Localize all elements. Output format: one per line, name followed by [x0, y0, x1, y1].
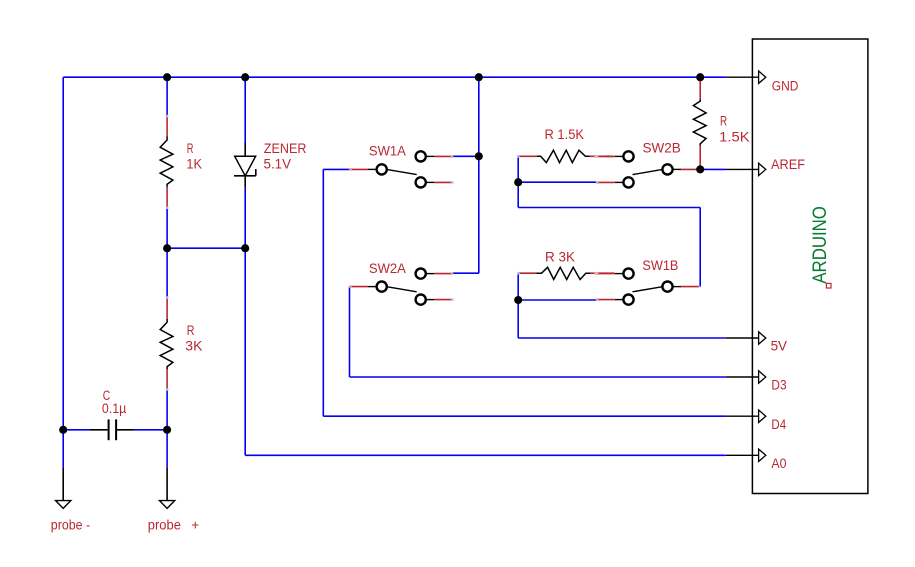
svg-text:SW1B: SW1B [642, 258, 678, 273]
svg-text:R 3K: R 3K [545, 250, 575, 265]
svg-text:SW1A: SW1A [369, 143, 406, 158]
svg-text:+: + [191, 517, 199, 532]
svg-text:R: R [187, 141, 194, 156]
svg-text:AREF: AREF [771, 157, 805, 172]
svg-text:D3: D3 [771, 378, 786, 393]
svg-text:5.1V: 5.1V [264, 157, 292, 172]
svg-text:5V: 5V [771, 339, 787, 354]
svg-text:ARDUINO: ARDUINO [810, 206, 831, 284]
svg-text:SW2B: SW2B [643, 141, 681, 156]
svg-text:R: R [187, 323, 195, 338]
svg-text:D4: D4 [771, 417, 786, 432]
svg-text:GND: GND [772, 79, 799, 94]
svg-text:R 1.5K: R 1.5K [545, 127, 585, 142]
svg-text:probe: probe [148, 517, 181, 532]
svg-text:1.5K: 1.5K [719, 129, 749, 144]
svg-text:SW2A: SW2A [369, 261, 406, 276]
svg-text:ZENER: ZENER [264, 141, 307, 156]
svg-text:0.1µ: 0.1µ [102, 401, 127, 416]
svg-text:A0: A0 [771, 456, 786, 471]
svg-text:probe -: probe - [51, 517, 90, 532]
svg-text:3K: 3K [185, 339, 202, 354]
svg-text:1K: 1K [186, 157, 202, 172]
svg-text:R: R [720, 113, 727, 128]
